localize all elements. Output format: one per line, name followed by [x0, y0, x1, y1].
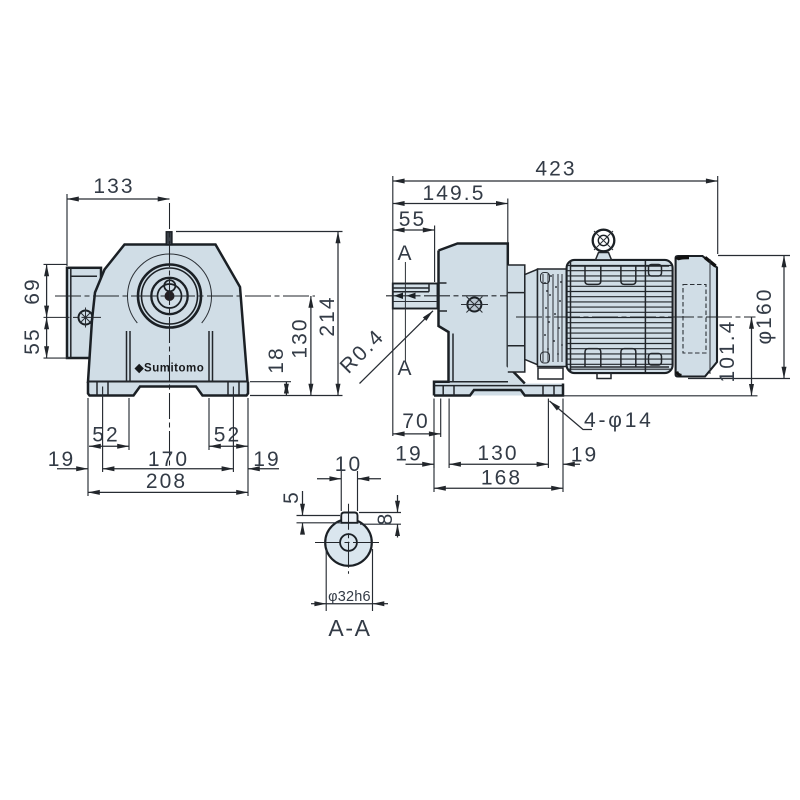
- section line A-A: [404, 262, 406, 362]
- top bosses: [585, 266, 601, 284]
- foot slot left (side): [443, 386, 454, 396]
- svg-text:52: 52: [92, 424, 120, 447]
- fan cover seam: [709, 259, 711, 374]
- dim 133: [66, 194, 68, 266]
- svg-text:8: 8: [374, 512, 397, 526]
- hub circle r28: [142, 268, 198, 324]
- gearcase silhouette: [434, 244, 563, 396]
- centerline arrows on shaft: [394, 293, 416, 299]
- svg-text:101.4: 101.4: [716, 319, 739, 382]
- eyebolt ring: [593, 230, 615, 252]
- top lug tab: [166, 232, 172, 245]
- stator curl top: [541, 273, 550, 284]
- boss column lines left: [127, 331, 131, 382]
- foot bolt slot left: [97, 382, 108, 396]
- shaft circle r18.2: [151, 278, 187, 314]
- motor block inner flange line: [71, 268, 97, 358]
- key on shaft: [393, 284, 429, 292]
- bearing boss arc: [127, 254, 211, 323]
- svg-text:170: 170: [148, 448, 189, 471]
- dim 170: [103, 468, 234, 470]
- svg-text:69: 69: [21, 277, 44, 305]
- shared left extension line: [392, 176, 394, 436]
- tap hole small circle: [164, 280, 175, 291]
- dim 8 (key height): [359, 513, 401, 525]
- svg-text:10: 10: [335, 453, 363, 476]
- svg-text:18: 18: [265, 346, 288, 374]
- svg-text:130: 130: [289, 317, 312, 358]
- stator curl bottom: [541, 352, 550, 363]
- dim 19-130-19 extension lines (side): [434, 399, 563, 493]
- dim 69: [44, 264, 68, 358]
- adapter cone: [525, 269, 538, 364]
- svg-text:19: 19: [395, 443, 423, 466]
- eyebolt base: [596, 253, 612, 260]
- dim 55 (front): [46, 317, 48, 358]
- horizontal centerline: [55, 295, 315, 297]
- terminal box under stator: [538, 368, 563, 379]
- svg-text:A: A: [397, 357, 411, 380]
- output shaft (side): [393, 284, 438, 309]
- foot slot right (side): [543, 386, 554, 396]
- motor block (end view, behind gearcase, left): [67, 268, 101, 358]
- motor centerline (front): [44, 316, 102, 318]
- svg-text:A-A: A-A: [328, 615, 371, 641]
- motor centerline: [516, 316, 756, 318]
- svg-text:52: 52: [214, 424, 242, 447]
- dim 19 right: [248, 468, 279, 470]
- fan cover shading marks: [677, 257, 689, 259]
- dim 19 left: [57, 468, 88, 470]
- dim 70: [440, 399, 442, 438]
- svg-text:A: A: [397, 242, 411, 265]
- vertical centerline: [169, 203, 171, 469]
- dim 18: [250, 381, 291, 383]
- section crosshair: [315, 542, 383, 544]
- svg-text:19: 19: [253, 448, 281, 471]
- tie rod bosses right band: [649, 265, 662, 277]
- stator band: [538, 269, 567, 367]
- motor finned body: [567, 260, 673, 373]
- shaft bore circle: [340, 534, 357, 551]
- dim 19-170-19 extension lines: [88, 387, 248, 497]
- foot bolt slot right: [228, 382, 239, 396]
- svg-text:130: 130: [477, 442, 518, 465]
- svg-text:φ32h6: φ32h6: [328, 589, 371, 605]
- shaft circle r12: [158, 284, 182, 308]
- hidden keyway bottom line: [394, 301, 437, 303]
- dim 52 left: [128, 398, 130, 450]
- foot (side): [434, 385, 563, 387]
- stator band dots texture: [544, 275, 563, 355]
- terminal foot under motor: [597, 373, 611, 379]
- dim 5 (key depth): [297, 516, 341, 523]
- boss column lines right: [209, 331, 213, 382]
- shaft section circle: [325, 519, 372, 566]
- leader 4-phi14: [550, 401, 593, 430]
- SECTION A-A: [280, 453, 401, 641]
- svg-text:55: 55: [399, 208, 427, 231]
- dim 52 right: [208, 398, 210, 450]
- dim 168: [433, 440, 435, 492]
- dim 423: [717, 176, 719, 254]
- feet (front): [88, 382, 248, 396]
- cooling fins: [567, 266, 672, 370]
- svg-text:133: 133: [93, 175, 134, 198]
- dim phi32h6: [326, 549, 372, 611]
- dim 19 left (side): [406, 463, 435, 465]
- case step lines at shaft: [439, 283, 448, 311]
- foot step line: [88, 381, 248, 383]
- svg-text:149.5: 149.5: [422, 182, 485, 205]
- dim 10 (key width): [341, 471, 357, 511]
- motor inner shell lines: [570, 261, 669, 373]
- dim phi160: [688, 256, 790, 379]
- svg-text:55: 55: [21, 327, 44, 355]
- svg-text:168: 168: [481, 467, 522, 490]
- gearcase body outline: [88, 245, 248, 382]
- dim 149.5: [507, 199, 509, 244]
- dim 208: [88, 491, 248, 493]
- svg-text:214: 214: [316, 295, 339, 336]
- dim 19 right (side): [563, 463, 580, 465]
- SIDE VIEW: [386, 230, 756, 396]
- svg-text:208: 208: [146, 470, 187, 493]
- side oil plug (front view): [79, 311, 93, 325]
- dim 214: [176, 231, 343, 233]
- leader R0.4: [360, 311, 434, 384]
- shaft centerline: [386, 295, 514, 297]
- dim 130 (side): [449, 463, 548, 465]
- gearcase bottom line: [449, 381, 509, 383]
- dim 130 (front): [310, 296, 312, 396]
- flange adapter block: [508, 265, 525, 372]
- fan cover: [676, 256, 717, 377]
- svg-text:5: 5: [280, 490, 303, 504]
- svg-text:423: 423: [535, 158, 576, 181]
- DIMENSIONS SIDE: [336, 158, 790, 493]
- bottom bosses: [585, 349, 601, 367]
- svg-text:4-φ14: 4-φ14: [584, 409, 654, 432]
- FRONT VIEW: [44, 203, 316, 469]
- svg-text:70: 70: [402, 410, 430, 433]
- svg-text:19: 19: [571, 444, 599, 467]
- hidden fan lines: [683, 285, 706, 354]
- DIMENSIONS FRONT: [21, 175, 343, 496]
- dim 55 (side): [434, 226, 436, 283]
- oil plug (side view): [467, 298, 481, 312]
- svg-text:19: 19: [48, 448, 76, 471]
- key in keyway: [341, 513, 357, 523]
- output hub circle r31.5: [138, 265, 201, 328]
- dim 101.4: [563, 395, 758, 397]
- svg-text:φ160: φ160: [753, 287, 776, 344]
- stator stripes: [543, 274, 562, 362]
- shaft center dot: [165, 291, 175, 301]
- gearcase leg second line: [452, 334, 454, 382]
